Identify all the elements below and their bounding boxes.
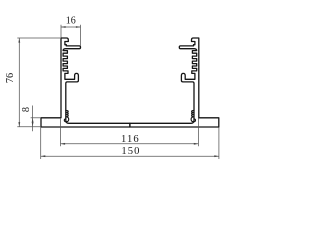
svg-text:16: 16 bbox=[66, 16, 76, 27]
svg-text:8: 8 bbox=[21, 107, 32, 112]
profile body: right half (mirror) bbox=[130, 38, 219, 127]
svg-text:150: 150 bbox=[121, 146, 140, 157]
svg-text:116: 116 bbox=[121, 134, 140, 145]
svg-text:76: 76 bbox=[5, 73, 16, 83]
profile body: left half bbox=[41, 38, 130, 127]
